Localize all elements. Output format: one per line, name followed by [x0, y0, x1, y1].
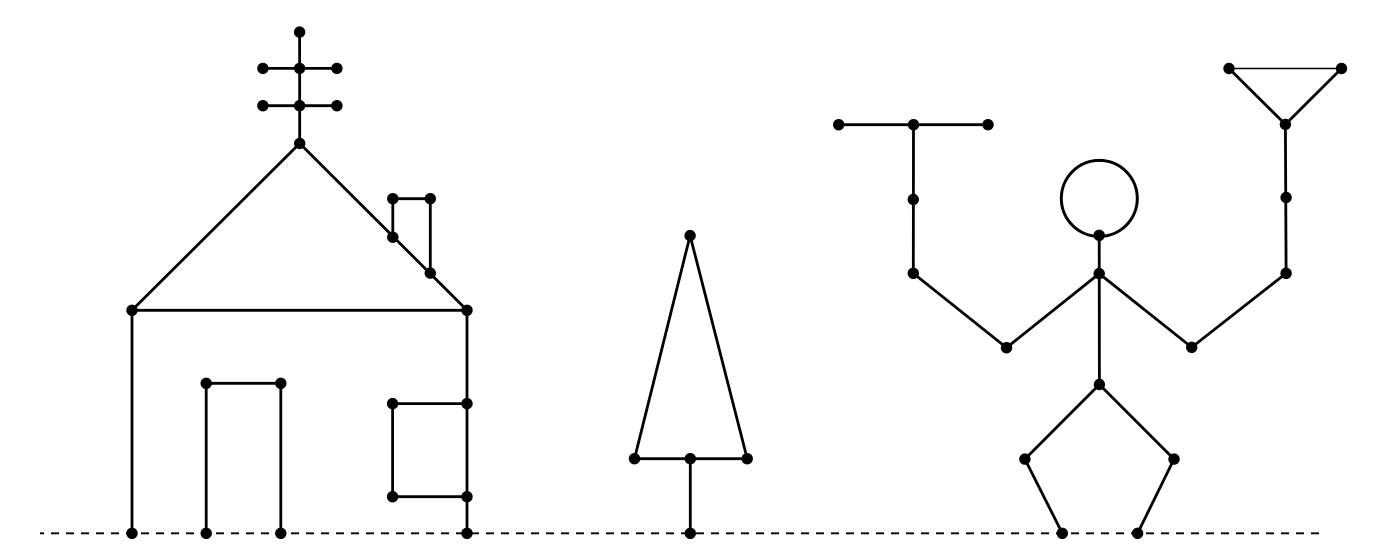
wire: roof right slope [300, 143, 467, 310]
wire: right forearm (right hand to right elbow) [1192, 273, 1286, 347]
node: triangle bottom [1280, 119, 1291, 130]
node: left elbow [908, 268, 919, 279]
node: right knee [1168, 453, 1179, 464]
node: T right end [982, 119, 993, 130]
node: right eave [461, 305, 472, 316]
wire: antenna crossbar 1 [263, 67, 337, 70]
node: triangle top-right [1336, 63, 1347, 74]
node: shoulder [1094, 268, 1105, 279]
wire: left arm upper (shoulder to left hand) [1007, 274, 1100, 348]
node: chimney bottom-left on roof [387, 232, 398, 243]
node: tree base center [685, 453, 696, 464]
node: window top-left [387, 398, 398, 409]
node: left knee [1019, 453, 1030, 464]
wire: right shin (right knee to right foot) [1138, 459, 1174, 533]
node: door top-left [201, 378, 212, 389]
wire: chimney left side [391, 199, 394, 238]
wire: roof left slope [132, 143, 300, 310]
node: right foot [1132, 528, 1143, 539]
wire: tree right slope [690, 236, 747, 459]
node: T left end [833, 119, 844, 130]
node: window bottom-right [461, 491, 472, 502]
wire: left shin (left knee to left foot) [1025, 459, 1062, 533]
node: left eave [126, 305, 137, 316]
wire: left forearm (left hand to left elbow) [913, 273, 1006, 347]
node: left arm middle [908, 194, 919, 205]
node: antenna crossbar1 left [257, 63, 268, 74]
wire: chimney top [393, 197, 431, 200]
node: tree base left [629, 453, 640, 464]
wire: left arm vertical (elbow to T-center) [912, 125, 915, 274]
wire: door top [206, 382, 281, 385]
node: antenna crossbar2 center [294, 100, 305, 111]
node: left hand [1001, 342, 1012, 353]
wire: left wall [131, 310, 134, 533]
wire: window bottom [393, 495, 467, 498]
node: chimney bottom-right on roof [425, 267, 436, 278]
wire: window top [393, 402, 467, 405]
wire: tree base [635, 457, 748, 460]
node: house left foot [126, 528, 137, 539]
node: door bottom-right [275, 528, 286, 539]
wire: right thigh (hip to right knee) [1099, 385, 1174, 460]
wire: triangle top edge (thin) [1229, 68, 1342, 70]
node: chimney top-right [425, 193, 436, 204]
head circle of stick figure [1061, 160, 1137, 236]
node: window top-right [461, 398, 472, 409]
node: roof apex [294, 138, 305, 149]
node: right hand [1186, 342, 1197, 353]
node: tree base right [742, 453, 753, 464]
wire: chimney right side [429, 199, 432, 273]
node: neck [1094, 230, 1105, 241]
wire: window left side [391, 404, 394, 497]
node: T center [908, 119, 919, 130]
wire: antenna mast [298, 32, 301, 143]
wire: antenna crossbar 2 [263, 104, 337, 107]
wire: triangle right edge [1285, 69, 1341, 125]
node: tree trunk bottom [685, 528, 696, 539]
node: chimney top-left [387, 193, 398, 204]
wire: T crossbar (left hand T) [839, 123, 988, 126]
node: triangle top-left [1223, 63, 1234, 74]
node: house right foot [461, 528, 472, 539]
node: right elbow [1280, 268, 1291, 279]
wire: triangle left edge [1229, 69, 1285, 125]
wire: tree trunk [689, 459, 692, 534]
node: hip [1094, 379, 1105, 390]
wire: door left side [205, 383, 208, 533]
wire: right wall [466, 310, 469, 533]
node: right arm middle [1280, 192, 1291, 203]
node: antenna crossbar2 left [257, 100, 268, 111]
node: antenna top [294, 26, 305, 37]
wire: body (neck to hip) [1098, 235, 1101, 384]
node: door top-right [275, 378, 286, 389]
wire: left thigh (hip to left knee) [1025, 385, 1100, 460]
ground line (dashed) [40, 532, 1322, 534]
wire: right arm upper (shoulder to right hand) [1099, 274, 1192, 348]
wire: eave line [132, 309, 467, 312]
wire: tree left slope [635, 236, 691, 459]
node: antenna crossbar1 right [331, 63, 342, 74]
node: left foot [1057, 528, 1068, 539]
node: door bottom-left [201, 528, 212, 539]
wire: door right side [279, 383, 282, 533]
node: antenna crossbar1 center [294, 63, 305, 74]
node: window bottom-left [387, 491, 398, 502]
node: tree apex [684, 230, 695, 241]
node: antenna crossbar2 right [331, 100, 342, 111]
wire: right arm vertical (elbow to triangle bottom) [1284, 124, 1287, 273]
